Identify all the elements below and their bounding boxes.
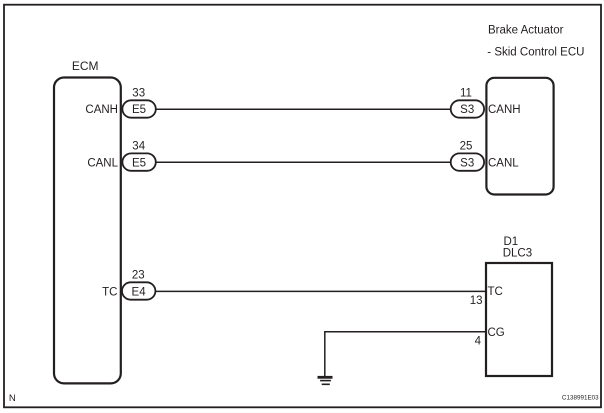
ground	[318, 377, 333, 384]
wire TC	[155, 290, 486, 292]
pin 4 (CG on DLC3)	[475, 327, 505, 348]
wire CANH	[156, 108, 451, 110]
svg-text:DLC3: DLC3	[503, 248, 532, 260]
svg-text:E5: E5	[132, 104, 146, 116]
svg-text:CANL: CANL	[87, 157, 118, 169]
wire CG	[325, 332, 486, 376]
svg-text:33: 33	[132, 87, 145, 99]
svg-text:CANH: CANH	[85, 104, 118, 116]
svg-text:11: 11	[460, 87, 472, 99]
svg-text:S3: S3	[460, 157, 474, 169]
svg-text:C138991E03: C138991E03	[562, 395, 599, 402]
pin S3-11 (CANH)	[451, 87, 484, 117]
svg-text:S3: S3	[460, 104, 474, 116]
svg-text:Brake Actuator: Brake Actuator	[488, 25, 564, 37]
svg-text:13: 13	[470, 295, 483, 307]
pin E5-34 (CANL)	[122, 140, 155, 170]
svg-text:E4: E4	[132, 286, 147, 298]
ECM block	[54, 59, 121, 384]
Brake Actuator - Skid Control ECU block	[486, 25, 584, 195]
pin E5-33 (CANH)	[122, 87, 155, 117]
svg-text:TC: TC	[102, 286, 117, 298]
svg-text:TC: TC	[488, 286, 503, 298]
pin E4-23 (TC)	[122, 269, 155, 299]
pin S3-25 (CANL)	[451, 140, 484, 170]
svg-text:CG: CG	[488, 327, 505, 339]
svg-text:- Skid Control ECU: - Skid Control ECU	[487, 46, 584, 58]
wire CANL	[156, 161, 451, 163]
svg-text:34: 34	[132, 140, 145, 152]
svg-text:D1: D1	[504, 236, 519, 248]
connector D1 DLC3 block	[486, 236, 552, 376]
svg-text:ECM: ECM	[72, 59, 99, 73]
svg-text:N: N	[9, 393, 16, 404]
svg-text:4: 4	[475, 336, 482, 348]
svg-text:E5: E5	[132, 157, 146, 169]
svg-text:23: 23	[132, 269, 145, 281]
svg-text:CANL: CANL	[488, 157, 519, 169]
pin 13 (TC on DLC3)	[470, 286, 503, 307]
svg-text:25: 25	[460, 140, 473, 152]
svg-text:CANH: CANH	[488, 104, 521, 116]
